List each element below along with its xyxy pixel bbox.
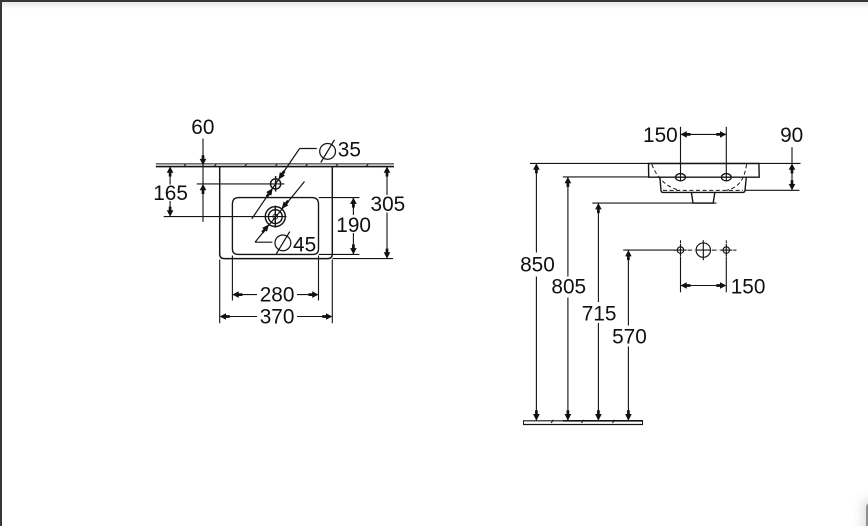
svg-text:305: 305: [371, 193, 406, 216]
dimension line 805: [565, 177, 572, 421]
drain centerline (horizontal): [164, 216, 287, 218]
level line 850 (top rim level): [530, 162, 801, 164]
extension line for 190 top (inner bowl top): [319, 197, 360, 199]
extension lines below basin: [220, 256, 333, 324]
label Ø45 (drawn diameter symbol + digits): [275, 232, 291, 255]
dimension 150 bottom (tap spacing): [681, 282, 727, 289]
svg-text:570: 570: [612, 325, 647, 348]
svg-text:150: 150: [731, 276, 766, 299]
wall line (double line with ticks): [156, 164, 394, 167]
dimension 90 (basin height): [789, 147, 796, 190]
bowl interior hidden curve (dashed): [652, 164, 680, 190]
svg-text:190: 190: [336, 214, 371, 237]
svg-text:60: 60: [191, 116, 214, 139]
tap group: right small circle: [720, 244, 732, 256]
floor line (double line with ticks): [523, 420, 643, 425]
label Ø35 (drawn diameter symbol + digits): [320, 140, 336, 163]
top shadow gradient: [0, 2, 868, 9]
svg-text:715: 715: [582, 302, 617, 325]
basin inner bowl (rounded rect): [232, 198, 318, 255]
extension line for 190 bottom (inner bowl front): [319, 253, 360, 255]
drain trap: [691, 192, 714, 203]
top dark bar: [0, 0, 868, 2]
svg-text:280: 280: [260, 284, 295, 307]
dimension 280 (inner bowl width): [232, 291, 318, 298]
svg-text:150: 150: [643, 124, 678, 147]
level line 90 bottom: [745, 189, 800, 191]
dimension 370 (overall width): [220, 313, 333, 320]
extension line for 305 bottom (outer front edge): [333, 258, 394, 260]
tap group: left small circle: [674, 244, 686, 256]
svg-text:35: 35: [338, 139, 361, 162]
interior bottom hidden line (dashed): [663, 189, 743, 191]
dimension 190 (inner bowl depth): [350, 198, 357, 255]
tap deck hole left (ellipse): [676, 174, 686, 181]
level line 715 (bottom of trap): [592, 202, 716, 204]
tap hole centerline (horizontal): [197, 183, 285, 185]
svg-text:850: 850: [520, 254, 555, 277]
dimension line 570: [625, 250, 632, 421]
drain circle (Ø45): [265, 206, 285, 228]
dimension 60 (wall to tap hole line): [200, 139, 207, 222]
dimension 165 (wall to drain centerline): [167, 167, 174, 217]
tap hole circle (Ø35): [271, 176, 281, 192]
svg-text:90: 90: [780, 124, 803, 147]
left dark border: [0, 0, 2, 526]
dimension line 715: [595, 203, 602, 421]
basin front view: rim band: [649, 164, 760, 178]
basin outer outline (top view): [220, 167, 333, 259]
basin front view: body: [660, 177, 746, 192]
level line 570 (tap group): [623, 249, 675, 251]
svg-text:370: 370: [260, 306, 295, 329]
level line 805: [563, 176, 649, 178]
extension lines below tap circles: [681, 257, 727, 293]
leader line Ø45: [255, 182, 305, 243]
tap group: middle circle: [695, 240, 711, 260]
svg-text:805: 805: [551, 276, 586, 299]
svg-text:45: 45: [293, 233, 316, 256]
tap deck hole right (ellipse): [721, 174, 731, 181]
bottom-right grey corner box: [866, 503, 868, 526]
leader line Ø35: [252, 149, 317, 219]
dimension line 850: [533, 163, 540, 421]
dashed connectors in tap group: [681, 240, 737, 250]
svg-text:165: 165: [153, 182, 188, 205]
dimension 305 (overall depth): [384, 167, 391, 259]
dimension 150 top (tap hole spacing): [681, 127, 727, 181]
